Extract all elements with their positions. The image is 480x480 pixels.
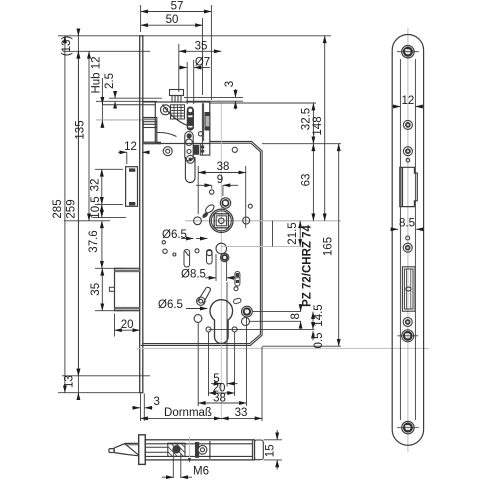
screw below block left xyxy=(163,147,172,156)
dimension 37.6 xyxy=(88,221,123,268)
tongue centerline arrow xyxy=(188,437,191,463)
dimension 32 xyxy=(90,169,124,204)
plate tiny hole xyxy=(406,236,410,240)
small circle under slot xyxy=(198,132,202,136)
euro profile cylinder cutout xyxy=(210,300,233,344)
bottom view body xyxy=(145,440,254,460)
extension line top faceplate y35.8 xyxy=(58,35,331,37)
svg-text:2.5: 2.5 xyxy=(104,73,116,89)
connector line right of case xyxy=(272,221,274,247)
dimension diameter6.5 upper xyxy=(162,229,207,241)
dimension 63 xyxy=(301,144,314,221)
dimension diameter 7 xyxy=(179,57,211,105)
locking lever xyxy=(197,287,211,305)
capsule slot B xyxy=(207,250,213,265)
svg-text:63: 63 xyxy=(301,174,313,187)
svg-text:35: 35 xyxy=(90,283,102,296)
latch mechanism block xyxy=(103,102,210,155)
screw in latch block xyxy=(161,105,171,115)
dark marks right of block xyxy=(201,146,204,153)
dimension 15 xyxy=(264,430,283,470)
latch bolt head (front view) xyxy=(143,118,161,145)
svg-text:(13): (13) xyxy=(61,36,73,57)
svg-text:50: 50 xyxy=(166,14,179,26)
svg-text:33: 33 xyxy=(235,407,248,419)
plate screw A xyxy=(403,120,412,129)
svg-text:3: 3 xyxy=(154,396,160,408)
small circle below slot xyxy=(234,287,238,291)
dimension 5 bottom xyxy=(211,373,238,385)
small screw circle right of block xyxy=(232,147,237,152)
verticals below case xyxy=(141,282,263,421)
lock case outline xyxy=(141,141,262,345)
dimension 3 bottom xyxy=(132,396,160,408)
dimension 35 deadbolt xyxy=(90,268,123,310)
follower centerline xyxy=(185,220,341,222)
small circle 9dim xyxy=(210,190,214,194)
svg-text:3: 3 xyxy=(224,81,236,87)
svg-text:135: 135 xyxy=(75,120,87,139)
svg-text:9: 9 xyxy=(217,174,223,186)
top torx screw xyxy=(397,46,419,58)
hole diameter6.5 lower xyxy=(194,315,202,323)
dimension 135 xyxy=(64,51,110,221)
dimension 38 bottom xyxy=(198,392,246,404)
plate channel lines xyxy=(400,59,415,420)
capsule tilted right xyxy=(233,298,241,305)
svg-text:37.6: 37.6 xyxy=(88,230,100,252)
dimension 10.5 xyxy=(90,196,126,218)
svg-text:Ø7: Ø7 xyxy=(195,57,210,69)
svg-text:12: 12 xyxy=(124,141,137,153)
svg-text:0.5: 0.5 xyxy=(313,333,325,349)
dimension 148 xyxy=(312,36,325,221)
svg-text:M6: M6 xyxy=(193,466,209,478)
dimension 2.5 xyxy=(96,73,162,109)
svg-text:12: 12 xyxy=(402,95,415,107)
dimension 35 latch xyxy=(179,40,222,92)
extension 8 top line xyxy=(252,311,300,313)
capsule slot A xyxy=(184,250,190,268)
dimension 259 xyxy=(66,29,79,400)
svg-text:148: 148 xyxy=(312,116,324,135)
label PZ 72/CHRZ 74 xyxy=(302,224,314,306)
pin slot diameter7 xyxy=(187,107,193,130)
extension line y51.3 xyxy=(63,50,150,52)
right bottom extension of case xyxy=(262,345,341,347)
spring clip left of follower xyxy=(201,203,215,219)
hole diameter6.5 left xyxy=(194,217,202,225)
svg-text:32.5: 32.5 xyxy=(301,108,313,130)
vertical slot with marks right xyxy=(235,272,240,287)
svg-text:38: 38 xyxy=(213,392,226,404)
follower nut xyxy=(210,209,233,232)
long thin line under case xyxy=(137,347,429,349)
dimension 14.5 xyxy=(313,304,325,329)
svg-text:Hub 12: Hub 12 xyxy=(91,56,103,93)
svg-text:285: 285 xyxy=(52,199,64,218)
dimension 33 xyxy=(221,407,262,419)
dimension 38 top xyxy=(198,161,246,228)
latch axis line y119.8 xyxy=(96,119,143,121)
dimension 8.5 plate xyxy=(392,218,423,230)
svg-text:Ø6.5: Ø6.5 xyxy=(162,229,187,241)
svg-text:14.5: 14.5 xyxy=(313,304,325,326)
deadbolt thrown xyxy=(109,268,139,310)
hole right pair bottom xyxy=(242,318,250,326)
bottom view faceplate section xyxy=(139,435,146,465)
dimension Dornmass xyxy=(141,407,222,419)
torx screw at tongue root xyxy=(186,155,194,163)
svg-text:32: 32 xyxy=(90,179,102,192)
dimension 20 deadbolt xyxy=(115,314,140,337)
dimension 165 xyxy=(323,144,339,347)
plate screw B xyxy=(403,147,412,156)
dimension M6 xyxy=(162,453,209,478)
dark block at tongue root xyxy=(193,145,199,155)
latch top extension right xyxy=(210,102,316,104)
torx screw right pair top xyxy=(242,306,253,317)
dimension 20 bottom xyxy=(209,382,235,394)
plate torx screw E xyxy=(398,330,419,342)
svg-text:13: 13 xyxy=(64,375,76,388)
extension 8 bottom line xyxy=(250,320,302,322)
svg-text:PZ 72/CHRZ 74: PZ 72/CHRZ 74 xyxy=(302,224,314,306)
svg-text:57: 57 xyxy=(171,1,184,13)
svg-text:Ø6.5: Ø6.5 xyxy=(158,299,183,311)
right top extension of case xyxy=(262,143,341,145)
plate outline xyxy=(392,35,423,446)
bottom view dark block xyxy=(195,442,199,458)
extension screws line xyxy=(209,328,315,330)
dimension 57 top xyxy=(141,1,212,13)
bottom screw right xyxy=(232,327,237,332)
svg-text:10.5: 10.5 xyxy=(90,196,102,218)
spring capsule right xyxy=(205,113,210,131)
svg-text:165: 165 xyxy=(323,237,335,256)
dimension 0.5 xyxy=(313,331,325,349)
long capsule slide xyxy=(185,132,193,162)
bottom view latch nose xyxy=(109,443,139,455)
block inner edge lines xyxy=(202,103,203,155)
bottom view torx screw xyxy=(198,445,207,454)
faceplate front view xyxy=(140,36,143,393)
plate bottom torx screw F xyxy=(397,421,419,433)
svg-text:259: 259 xyxy=(66,199,78,218)
svg-text:38: 38 xyxy=(217,161,230,173)
plate latch cutout xyxy=(400,167,418,206)
hole diameter8.5 xyxy=(216,243,227,254)
plate screw D xyxy=(403,318,412,327)
21.5 extension line xyxy=(221,246,302,248)
bottom view divider xyxy=(209,441,211,459)
dimension 21.5 xyxy=(287,221,300,247)
dimension 12 keep xyxy=(118,141,149,164)
small circle top right xyxy=(248,204,252,208)
dimension 3 top right xyxy=(184,81,243,110)
plate deadbolt cutout xyxy=(402,267,415,311)
svg-text:8.5: 8.5 xyxy=(399,218,415,230)
M6 screw housing xyxy=(168,443,185,456)
extension line faceplate bottom y392.7 xyxy=(58,392,140,394)
dimension diameter8.5 xyxy=(181,254,240,281)
dimension Hub 12 xyxy=(91,56,103,128)
bottom view end cap xyxy=(254,440,263,460)
torx screw above follower xyxy=(220,198,230,208)
dimension 9 xyxy=(196,174,238,196)
dimension 50 xyxy=(141,5,212,100)
svg-text:Dornmaß: Dornmaß xyxy=(164,407,212,419)
latch spring grid xyxy=(171,105,185,119)
svg-text:8: 8 xyxy=(290,313,302,319)
torx screw below xyxy=(221,253,229,261)
hole right of follower xyxy=(243,217,250,224)
dimension (13) top xyxy=(61,29,78,58)
svg-text:21.5: 21.5 xyxy=(287,222,299,244)
plate centerline xyxy=(407,28,409,452)
latch tail sweep curve xyxy=(157,105,193,137)
svg-text:Ø8.5: Ø8.5 xyxy=(181,269,206,281)
svg-text:15: 15 xyxy=(265,444,277,457)
dimension 285 xyxy=(52,36,65,393)
extension line y375.8 xyxy=(62,375,150,377)
dimension diameter6.5 lower xyxy=(158,299,207,311)
svg-text:20: 20 xyxy=(121,319,134,331)
svg-text:35: 35 xyxy=(195,40,208,52)
plate screw C xyxy=(403,243,412,252)
trigger pin above block xyxy=(170,90,184,103)
latch tongue U xyxy=(185,157,195,183)
dimension 13 bottom xyxy=(64,369,79,400)
vertical centerline through follower/cylinder xyxy=(220,103,222,421)
plate small hole xyxy=(406,158,410,162)
keep rectangle (aux) left xyxy=(126,167,138,207)
dimension 12 plate xyxy=(393,95,424,107)
small holes cluster mid case xyxy=(162,241,165,244)
dimension 8 xyxy=(290,304,302,329)
bottom screw left xyxy=(206,327,211,332)
dimension 32.5 xyxy=(301,103,314,144)
